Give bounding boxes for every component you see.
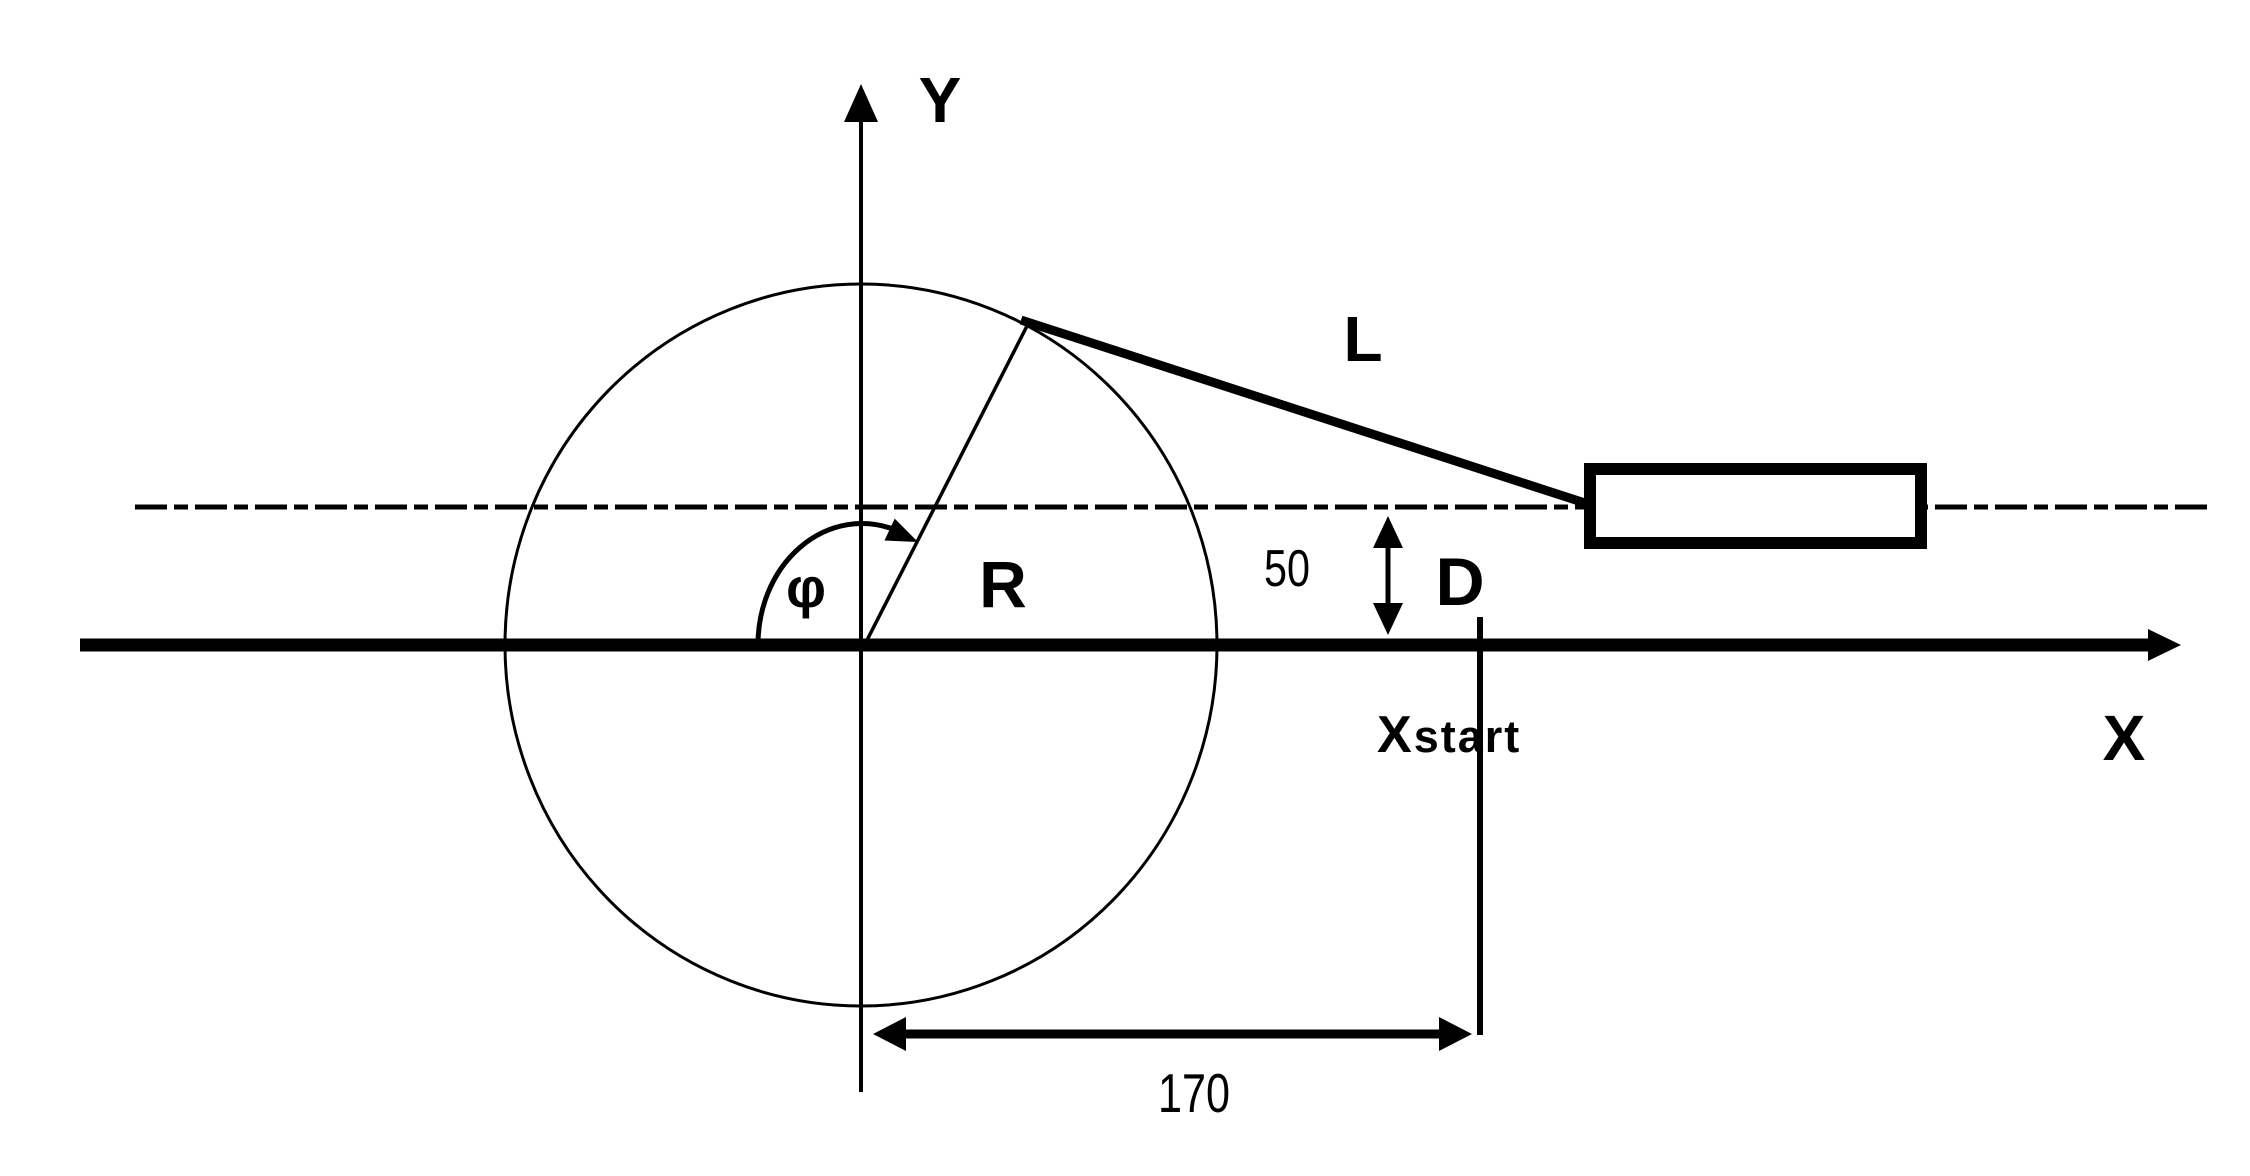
dimension 170 label [1158,1062,1230,1124]
dashed centerline through D level [135,505,2214,510]
svg-text:Xstart: Xstart [1377,706,1521,764]
tangent line L [1021,320,1588,504]
Xstart vertical line [1477,617,1483,1035]
circle (radius R) [505,284,1217,1006]
dimension 170 arrow (horizontal double arrow) [873,1017,1472,1051]
X axis arrowhead [2148,629,2181,661]
Y axis label [919,64,962,136]
dimension D arrow (vertical double arrow) [1373,516,1403,635]
svg-text:X: X [2103,702,2146,774]
radius line R [862,324,1028,650]
svg-text:D: D [1435,544,1484,620]
angle label phi [786,556,826,619]
svg-text:50: 50 [1264,540,1310,598]
dimension D label [1435,544,1484,620]
block rectangle [1590,469,1921,543]
tangent label L [1343,303,1382,375]
offset value 50 [1264,540,1310,598]
svg-text:φ: φ [786,556,826,619]
svg-text:L: L [1343,303,1382,375]
svg-text:R: R [979,547,1027,621]
X axis label [2103,702,2146,774]
radius label R [979,547,1027,621]
X axis [80,639,2150,652]
Xstart label [1377,706,1521,764]
angle phi arc [758,523,893,645]
svg-text:170: 170 [1158,1062,1230,1124]
svg-text:Y: Y [919,64,962,136]
angle phi arrowhead [885,519,919,542]
Y axis arrowhead [844,84,878,122]
Y axis [859,112,863,1092]
